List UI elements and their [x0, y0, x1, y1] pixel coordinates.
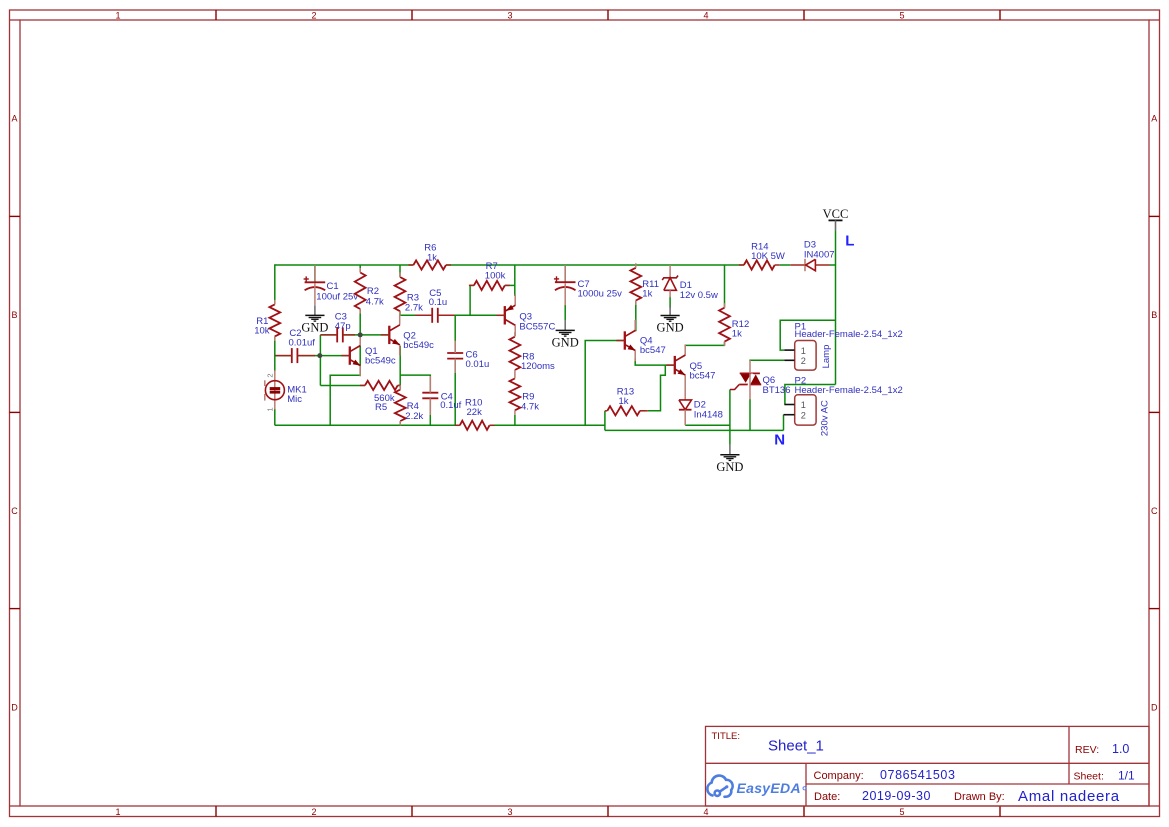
svg-text:4: 4: [703, 10, 708, 20]
svg-text:2: 2: [801, 410, 806, 420]
transistor Q3 PNP: [504, 306, 506, 324]
svg-text:Header-Female-2.54_1x2: Header-Female-2.54_1x2: [795, 329, 903, 340]
wire C5 row: [400, 314, 432, 316]
svg-text:Lamp: Lamp: [821, 345, 832, 369]
wire L vertical: [835, 230, 837, 384]
svg-text:0.1uf: 0.1uf: [440, 400, 461, 411]
wire gate-GND vertical: [729, 390, 731, 445]
capacitor C2: [291, 348, 293, 363]
wire R3 drop: [399, 265, 401, 277]
capacitor C6: [447, 352, 463, 354]
resistor R7: [474, 281, 505, 290]
svg-text:0.1u: 0.1u: [429, 297, 448, 308]
svg-text:1: 1: [115, 10, 120, 20]
svg-text:2: 2: [266, 373, 275, 377]
svg-text:0786541503: 0786541503: [880, 768, 956, 782]
wire Q3 collector R8 R9 chain: [514, 415, 516, 426]
svg-text:1/1: 1/1: [1118, 768, 1135, 782]
wire N rail: [605, 429, 784, 431]
svg-text:Mic: Mic: [287, 394, 302, 405]
svg-text:1k: 1k: [427, 252, 437, 263]
wire D1 drop: [669, 297, 671, 308]
wire C7 drop: [564, 265, 566, 282]
wire L to P2 pin1: [785, 385, 836, 405]
svg-text:Date:: Date:: [814, 791, 840, 803]
resistor R9: [510, 378, 521, 410]
svg-text:GND: GND: [657, 321, 684, 335]
svg-text:1: 1: [801, 400, 806, 410]
svg-text:BT136: BT136: [763, 385, 791, 396]
svg-text:1: 1: [115, 807, 120, 817]
svg-text:230v AC: 230v AC: [820, 400, 831, 436]
resistor R1: [269, 304, 280, 336]
svg-text:IN4007: IN4007: [804, 249, 835, 260]
microphone MK1: [274, 370, 276, 399]
svg-text:A: A: [1151, 114, 1157, 124]
svg-text:2.7k: 2.7k: [405, 302, 423, 313]
resistor R5: [365, 381, 398, 390]
svg-text:EasyEDA: EasyEDA: [737, 780, 801, 796]
svg-text:1k: 1k: [642, 289, 652, 300]
wire Q5 base to R13: [648, 365, 666, 411]
svg-text:VCC: VCC: [823, 207, 849, 221]
transistor Q5: [674, 356, 676, 374]
triac Q6: [740, 373, 751, 382]
title block: [706, 726, 1150, 806]
svg-text:bc547: bc547: [690, 371, 716, 382]
svg-text:1k: 1k: [732, 329, 742, 340]
wire Q4 base from rail: [585, 341, 625, 426]
resistor R10: [460, 421, 490, 430]
svg-text:Amal nadeera: Amal nadeera: [1018, 788, 1120, 805]
wire C6 vertical: [454, 315, 456, 353]
svg-text:5: 5: [899, 10, 904, 20]
header P2: [795, 395, 816, 425]
wire C2 row: [275, 355, 292, 357]
svg-text:10k: 10k: [254, 326, 270, 337]
resistor R8: [510, 337, 521, 370]
wire R2 drop: [359, 265, 361, 273]
wire R11 drop: [635, 301, 637, 332]
wire bottom rail: [275, 424, 460, 426]
wire bottom jog: [604, 411, 606, 431]
wire Q2 emitter / R4 vertical: [399, 346, 401, 390]
svg-text:B: B: [1151, 310, 1157, 320]
svg-text:GND: GND: [552, 336, 579, 350]
EasyEDA logo: [707, 776, 732, 797]
svg-text:Drawn By:: Drawn By:: [954, 791, 1005, 803]
svg-text:Company:: Company:: [814, 770, 864, 782]
resistor R3: [395, 277, 406, 311]
svg-text:TITLE:: TITLE:: [712, 731, 741, 742]
svg-text:B: B: [11, 310, 17, 320]
svg-text:In4148: In4148: [694, 409, 723, 420]
ground under D1: [669, 306, 671, 316]
capacitor C5: [431, 308, 433, 323]
wire C3 row: [320, 334, 337, 336]
svg-text:22k: 22k: [467, 407, 483, 418]
junction dot R2/C3/Q1 node: [358, 332, 363, 337]
svg-text:3: 3: [507, 807, 512, 817]
svg-text:R5: R5: [375, 402, 387, 413]
wire Q3 emitter drop: [514, 265, 516, 296]
wire C3-C2 vertical: [319, 335, 321, 386]
svg-text:D: D: [11, 703, 18, 713]
svg-text:4.7k: 4.7k: [521, 401, 539, 412]
wire L to P1 pin1: [780, 320, 835, 350]
ground under C1: [314, 305, 316, 315]
resistor R13: [607, 406, 640, 415]
svg-text:A: A: [11, 114, 17, 124]
svg-text:2019-09-30: 2019-09-30: [862, 789, 931, 803]
wire D2 to gate node: [685, 424, 730, 426]
header P1: [795, 341, 816, 371]
svg-text:bc549c: bc549c: [365, 356, 396, 367]
diode D2: [684, 386, 686, 400]
svg-text:1k: 1k: [619, 396, 629, 407]
svg-text:D: D: [1151, 703, 1158, 713]
svg-text:4: 4: [703, 807, 708, 817]
svg-text:C: C: [11, 506, 18, 516]
capacitor C1 electrolytic: [314, 265, 316, 282]
svg-text:2: 2: [801, 356, 806, 366]
svg-text:2: 2: [311, 807, 316, 817]
svg-text:C1: C1: [327, 281, 339, 292]
row ticks left: [10, 215, 21, 217]
zener diode D1: [669, 265, 671, 278]
svg-text:4.7k: 4.7k: [366, 297, 384, 308]
resistor R12: [719, 308, 730, 342]
svg-text:BC557C: BC557C: [519, 321, 555, 332]
svg-text:2.2k: 2.2k: [405, 411, 423, 422]
wire Q5 collector to R12: [685, 344, 724, 346]
wire C1 drop: [314, 265, 316, 282]
ground under C7: [564, 320, 566, 330]
svg-text:1: 1: [266, 407, 275, 411]
wire P2 pin2 to N rail: [783, 415, 785, 431]
transistor Q2: [388, 326, 390, 344]
row ticks right: [1149, 215, 1160, 217]
svg-text:L: L: [845, 233, 854, 250]
wire triac MT2 to P1 pin2: [749, 359, 784, 361]
svg-text:0.01u: 0.01u: [466, 359, 490, 370]
wire Q1 emitter path: [330, 346, 360, 426]
svg-text:12v 0.5w: 12v 0.5w: [680, 290, 718, 301]
svg-text:bc549c: bc549c: [403, 340, 434, 351]
column ticks top: [215, 10, 217, 20]
svg-text:REV:: REV:: [1075, 744, 1099, 756]
diode D3: [780, 264, 791, 266]
svg-text:0.01uf: 0.01uf: [289, 338, 316, 349]
junction dot C2 node: [317, 353, 322, 358]
resistor R2: [355, 273, 366, 310]
capacitor C4: [422, 392, 438, 394]
resistor R11: [630, 268, 641, 301]
svg-text:C: C: [1151, 506, 1158, 516]
svg-text:120oms: 120oms: [521, 361, 555, 372]
transistor Q1: [349, 346, 351, 364]
wire Q2emitter-C4 branch: [400, 375, 430, 393]
wire Q4 emitter to Q5 base: [635, 358, 675, 365]
resistor R6: [413, 260, 446, 269]
svg-text:Header-Female-2.54_1x2: Header-Female-2.54_1x2: [795, 385, 903, 396]
svg-text:100uf 25v: 100uf 25v: [316, 292, 358, 303]
ground bottom: [729, 445, 731, 455]
wire R7 loop: [470, 285, 474, 315]
svg-text:5: 5: [899, 807, 904, 817]
svg-text:47p: 47p: [335, 321, 351, 332]
svg-text:1.0: 1.0: [1112, 742, 1129, 756]
svg-text:Sheet_1: Sheet_1: [768, 738, 824, 755]
svg-text:100k: 100k: [485, 271, 506, 282]
svg-text:3: 3: [507, 10, 512, 20]
capacitor C7 electrolytic: [564, 265, 566, 282]
column ticks bottom: [215, 806, 217, 817]
transistor Q4: [624, 331, 626, 349]
capacitor C3: [336, 327, 338, 342]
svg-text:1: 1: [801, 346, 806, 356]
svg-text:1000u 25v: 1000u 25v: [578, 289, 623, 300]
svg-text:bc547: bc547: [640, 345, 666, 356]
wire triac MT1 drop: [749, 399, 751, 430]
svg-text:Sheet:: Sheet:: [1074, 770, 1104, 782]
resistor R4: [395, 390, 406, 421]
wire R5 row: [320, 385, 365, 387]
svg-text:2: 2: [311, 10, 316, 20]
svg-text:N: N: [774, 432, 785, 449]
wire top VCC rail: [275, 264, 414, 266]
svg-text:GND: GND: [716, 460, 743, 474]
wire left vertical: [274, 264, 276, 304]
svg-text:GND: GND: [301, 321, 328, 335]
resistor R14: [744, 260, 775, 269]
svg-text:10K 5W: 10K 5W: [751, 251, 785, 262]
